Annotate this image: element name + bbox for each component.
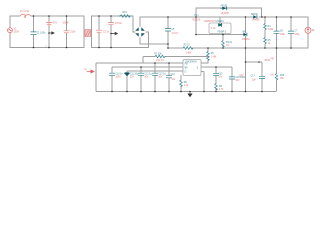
capacitor C14 x169	[166, 76, 172, 78]
wire: bulk cap column	[167, 17, 169, 48]
junction dots ground bus	[111, 91, 263, 93]
capacitor C3	[96, 30, 102, 32]
wire: feedback bus y34.5	[196, 34, 244, 36]
svg-text:1/8W: 1/8W	[186, 52, 192, 54]
wire: column x262	[261, 63, 263, 92]
resistor R6 x208 riser	[207, 52, 210, 61]
freewheel diode D2	[220, 6, 227, 10]
svg-text:15k: 15k	[280, 78, 285, 80]
wire: output column C6 x276.5	[276, 17, 278, 48]
svg-text:400V: 400V	[171, 31, 179, 35]
resistor R7 on y56.5 branch	[155, 55, 166, 58]
svg-text:100nF: 100nF	[62, 23, 69, 25]
svg-text:R8: R8	[184, 82, 188, 84]
wire: column x112	[111, 68, 113, 92]
wire: IC2 BP pin wire y67	[201, 66, 232, 69]
wire: bus y71	[127, 70, 183, 73]
svg-text:C10 1n: C10 1n	[115, 73, 123, 75]
lower: input port arrow	[87, 70, 95, 73]
wire: IC2 FB pin riser x208	[201, 48, 208, 63]
wire: IC1 drain pin	[219, 17, 221, 23]
wire: bridge right feed	[146, 32, 149, 48]
svg-text:220n: 220n	[70, 32, 76, 34]
probe arrow at node B	[111, 32, 118, 34]
fuse F1	[20, 14, 31, 17]
junction dots DC- bus	[167, 43, 292, 49]
capacitor C16 x232	[229, 77, 235, 79]
svg-text:1k: 1k	[268, 43, 271, 45]
capacitor C1	[31, 32, 37, 35]
wire: middle loop bottom bus	[92, 47, 149, 49]
wire: middle loop top bus	[92, 15, 134, 17]
svg-text:C12 1µ: C12 1µ	[144, 73, 152, 75]
svg-text:100µ: 100µ	[280, 34, 286, 36]
zener diode VR1	[243, 33, 247, 36]
wire: branch y56.5	[143, 57, 208, 64]
svg-text:10n: 10n	[171, 79, 176, 81]
svg-text:R6: R6	[211, 53, 215, 55]
probe arrow at node A	[49, 32, 54, 34]
ground	[187, 94, 192, 98]
svg-text:1%: 1%	[226, 45, 229, 47]
svg-text:FB: FB	[185, 64, 188, 66]
svg-text:V1: V1	[14, 29, 18, 31]
svg-text:RF1: RF1	[123, 12, 128, 14]
resistor R9 x216	[215, 84, 218, 91]
wire: column x155	[154, 63, 156, 92]
junction node B	[110, 33, 112, 35]
svg-text:100V: 100V	[115, 77, 121, 79]
svg-text:UF4005: UF4005	[221, 13, 230, 15]
capacitor C6	[274, 31, 280, 33]
svg-text:1µF: 1µF	[252, 79, 257, 81]
wire: bridge top output	[139, 17, 141, 26]
svg-text:FB: FB	[271, 58, 274, 60]
svg-text:C7: C7	[294, 31, 298, 33]
wire: snubber loop top y8	[196, 8, 262, 17]
wire: IC2 source pin wire y71.5	[201, 72, 204, 92]
svg-text:1.2k: 1.2k	[184, 85, 189, 87]
wire: column C1	[33, 16, 35, 48]
svg-text:1.5k 1%: 1.5k 1%	[156, 60, 164, 62]
svg-text:C4 10n: C4 10n	[115, 23, 123, 25]
wire: column x276.5 lower resistor	[276, 48, 278, 74]
svg-text:1N4005: 1N4005	[252, 19, 261, 21]
svg-text:0.1A: 0.1A	[211, 27, 216, 30]
wire: AC source column left	[9, 16, 11, 48]
wire: IC2 bottom resistor column x181	[180, 76, 182, 92]
svg-text:C11 10µ: C11 10µ	[130, 73, 139, 75]
wire: column x141	[140, 67, 142, 92]
wire: lower section left vertical body	[95, 64, 98, 92]
capacitor C13 x155	[152, 73, 158, 75]
bridge rectifier BR1	[135, 27, 145, 37]
resistor RF1 on top bus	[119, 15, 131, 18]
svg-text:RV1: RV1	[53, 23, 58, 25]
svg-text:C14: C14	[171, 74, 176, 76]
svg-text:50V: 50V	[235, 80, 240, 82]
svg-text:DCBUS: DCBUS	[192, 20, 200, 22]
junction dots top bus	[33, 15, 112, 17]
svg-text:R3 2k: R3 2k	[226, 42, 233, 44]
IC U1 top (LNK switch) body	[209, 23, 231, 34]
wire: column x169	[168, 63, 170, 92]
wire: column CX2	[66, 16, 68, 48]
svg-text:SB160: SB160	[251, 14, 259, 16]
svg-text:V+: V+	[84, 69, 88, 71]
svg-text:C15: C15	[218, 73, 223, 75]
capacitor C17 x262	[259, 76, 265, 78]
svg-text:R9: R9	[219, 86, 223, 88]
capacitor C12 x141	[138, 73, 144, 75]
wire: lower bottom ground bus y91.5	[97, 80, 277, 92]
wire: bus y67	[112, 66, 183, 69]
resistor R4 upper divider	[264, 24, 267, 31]
wire: output column C7 x291	[290, 17, 292, 48]
wire: column C3	[98, 16, 100, 48]
svg-text:+: +	[143, 35, 145, 37]
wire: column x216	[215, 67, 217, 92]
wire: freewheel branch vertical x196	[195, 17, 197, 35]
shunt resistor R2 on DC- bus	[183, 47, 193, 50]
wire: vertical ground link x245.5	[245, 17, 247, 92]
wire: DC- return bus y48	[168, 47, 308, 49]
svg-text:120µ: 120µ	[294, 34, 300, 36]
junction dots bottom bus left	[33, 47, 112, 49]
svg-text:C17: C17	[251, 75, 256, 77]
output diode D1	[253, 15, 257, 19]
svg-text:C13 1n: C13 1n	[158, 73, 166, 75]
svg-text:2.49k: 2.49k	[211, 57, 217, 59]
svg-text:10n: 10n	[218, 77, 223, 79]
polarized capacitor C11 x127	[125, 73, 130, 76]
wire: bottom bus left loop	[10, 47, 84, 49]
wire: AC top bus left loop	[10, 15, 84, 17]
capacitor C4	[108, 23, 114, 25]
wire: choke right winding	[91, 16, 93, 48]
svg-text:RL: RL	[312, 30, 316, 32]
wire: DC+ bus y17	[140, 16, 308, 18]
svg-text:F1 3.15A: F1 3.15A	[20, 10, 30, 13]
svg-text:CBP: CBP	[239, 75, 244, 77]
wire: choke left winding	[83, 16, 85, 48]
svg-text:1N5251: 1N5251	[242, 39, 251, 41]
capacitor CX2	[64, 31, 70, 33]
wire: load column x308	[307, 17, 309, 48]
svg-text:50V: 50V	[144, 77, 149, 79]
resistor R10 x276.5	[275, 74, 278, 81]
svg-text:FR107: FR107	[221, 5, 229, 7]
IC U1 internal mosfet glyph	[219, 23, 222, 27]
varistor RV1	[46, 21, 52, 26]
svg-text:LNK304: LNK304	[215, 21, 224, 23]
svg-text:4.7k: 4.7k	[219, 89, 224, 91]
svg-text:230V: 230V	[14, 31, 20, 33]
wire: column x232	[231, 68, 233, 92]
wire: ground stub	[189, 92, 191, 94]
junction dots feedback bus	[195, 34, 224, 36]
resistor R3 x233	[222, 41, 225, 48]
AC source V1	[8, 28, 13, 33]
svg-text:R10: R10	[280, 75, 285, 77]
svg-text:C1 100n: C1 100n	[37, 32, 46, 34]
capacitor C7	[288, 31, 294, 33]
junction node A	[48, 32, 50, 34]
resistor R8 x181	[180, 80, 183, 87]
common-mode choke L1 core	[85, 30, 91, 37]
svg-text:FB BP S: FB BP S	[218, 31, 227, 33]
wire: output column R divider x265	[264, 17, 266, 48]
wire: column x127	[126, 72, 128, 92]
svg-text:HV+: HV+	[194, 15, 199, 17]
svg-text:BP: BP	[243, 31, 247, 33]
wire: column R feedback x223	[222, 35, 224, 49]
svg-text:25V: 25V	[130, 77, 135, 79]
bulk capacitor C5	[165, 29, 171, 31]
svg-text:50V: 50V	[158, 77, 163, 79]
svg-text:R7 20k: R7 20k	[154, 53, 162, 55]
wire: column RV1	[48, 16, 50, 48]
wire: bridge left feed	[133, 16, 135, 32]
junction dots lower buses	[140, 61, 260, 68]
wire: bridge bottom output	[140, 38, 168, 44]
wire: column C4	[110, 16, 112, 48]
svg-text:C3 1n: C3 1n	[103, 31, 110, 33]
svg-text:R4: R4	[268, 26, 272, 28]
junction dots DC+ bus	[167, 16, 292, 18]
svg-text:R5: R5	[268, 40, 272, 42]
capacitor C15 x216	[213, 73, 219, 75]
capacitor C10 x112	[109, 73, 115, 75]
svg-text:3.84k: 3.84k	[268, 29, 274, 31]
svg-text:C6: C6	[280, 31, 284, 33]
IC U2 LNK304GN body	[183, 60, 201, 76]
svg-text:BP: BP	[185, 68, 189, 70]
svg-text:1%: 1%	[270, 74, 273, 76]
wire: lower section left vertical x96	[96, 62, 183, 65]
svg-text:R2 10: R2 10	[184, 45, 191, 47]
load source RL	[305, 27, 311, 33]
resistor R5 lower divider	[264, 38, 267, 45]
wire: stub y62 to x262	[246, 61, 263, 64]
